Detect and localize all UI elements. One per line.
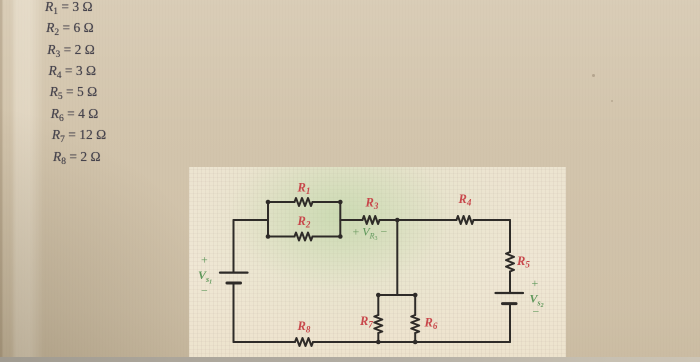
svg-text:R6: R6 [424, 316, 438, 332]
svg-text:−: − [533, 305, 540, 319]
svg-text:+ VR3−: + VR3− [353, 225, 388, 243]
svg-text:R2: R2 [297, 214, 311, 230]
svg-text:R8: R8 [297, 319, 311, 335]
svg-text:R7: R7 [359, 314, 373, 330]
svg-text:+: + [201, 253, 208, 267]
svg-text:−: − [201, 284, 208, 298]
svg-text:R3: R3 [365, 196, 379, 212]
svg-text:R5: R5 [516, 254, 530, 270]
svg-text:+: + [532, 276, 539, 290]
svg-text:R4: R4 [458, 192, 472, 208]
svg-text:R1: R1 [297, 181, 311, 197]
